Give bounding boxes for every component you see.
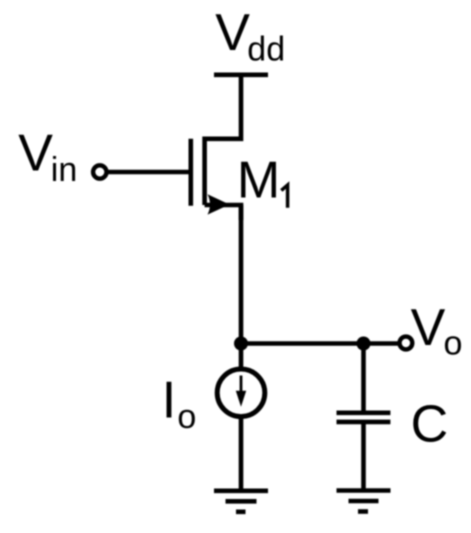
Vdd supply rail bar <box>214 73 268 78</box>
output terminal Vo (open circle) <box>400 337 413 350</box>
svg-text:V: V <box>18 125 53 183</box>
svg-text:dd: dd <box>247 31 285 69</box>
wire: output node to current source <box>239 344 244 369</box>
svg-text:in: in <box>51 151 77 189</box>
wire: M1 source down to output node <box>239 205 244 344</box>
ground (left, under current source) <box>214 491 268 512</box>
wire: Vdd rail to M1 drain <box>205 75 241 139</box>
wire: current source to ground <box>239 417 244 490</box>
junction node at capacitor tap <box>357 337 371 351</box>
wire: input terminal to gate <box>107 170 191 175</box>
svg-text:o: o <box>444 324 463 362</box>
label Vin <box>18 125 77 190</box>
svg-text:V: V <box>215 4 250 62</box>
svg-text:C: C <box>411 396 449 454</box>
current source Io (circle) <box>217 369 265 417</box>
label Vo <box>411 299 463 362</box>
source lead <box>205 205 241 220</box>
wire: capacitor to ground <box>361 422 366 490</box>
transistor M1 <box>191 137 241 221</box>
channel bar <box>202 137 207 206</box>
capacitor C <box>337 413 391 422</box>
svg-text:I: I <box>162 371 176 429</box>
ground (right, under capacitor) <box>337 491 391 512</box>
net Vdd label <box>215 4 285 69</box>
gate bar <box>189 139 194 206</box>
source arrow (NMOS) <box>208 194 230 214</box>
wire: capacitor tap down to capacitor <box>361 344 366 413</box>
junction node at source/output <box>234 337 248 351</box>
svg-text:M: M <box>237 151 280 209</box>
svg-text:V: V <box>411 299 446 357</box>
input terminal (open circle) <box>93 165 106 178</box>
svg-text:o: o <box>177 398 196 436</box>
label M1 <box>237 151 288 209</box>
current source arrow <box>236 376 246 407</box>
label Io <box>162 371 197 436</box>
wire: output node to Vo terminal <box>241 341 399 346</box>
